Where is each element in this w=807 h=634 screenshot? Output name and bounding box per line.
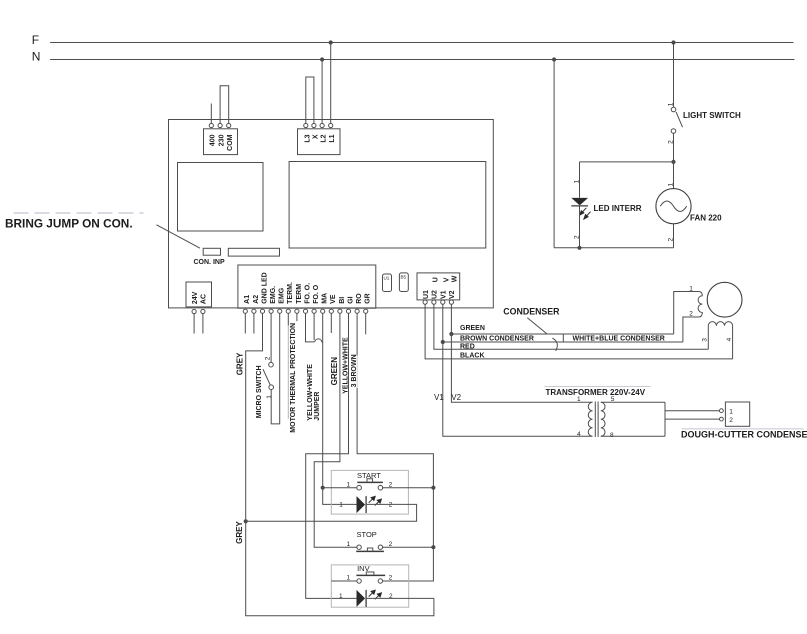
wire L1 to F — [330, 43, 332, 124]
wire stub 24V — [193, 314, 195, 334]
switch blade — [676, 112, 682, 127]
svg-text:4: 4 — [726, 337, 733, 341]
svg-text:U2: U2 — [432, 290, 439, 299]
wire to condenser pin1 — [665, 410, 720, 412]
svg-text:230: 230 — [219, 134, 226, 146]
wire F rail — [50, 42, 793, 44]
wire GREY from GND LED — [246, 314, 434, 616]
wire U2 to RED row — [434, 304, 708, 349]
label YELLOW+WHITE — [342, 345, 348, 395]
junction START.2 — [431, 486, 435, 490]
wire jumper 230-COM — [220, 86, 229, 124]
junction L2-N — [320, 57, 324, 61]
svg-text:3 BROWN: 3 BROWN — [351, 354, 358, 387]
junction N branch — [552, 57, 556, 61]
junction V2-GREEN — [449, 332, 453, 336]
wire EMG. to microswitch — [270, 314, 272, 363]
svg-text:AC: AC — [201, 294, 208, 304]
svg-text:BLACK: BLACK — [460, 353, 485, 360]
START LED arrows — [369, 496, 382, 505]
START contacts — [357, 485, 362, 490]
STOP contacts — [357, 545, 361, 549]
svg-text:EMG: EMG — [279, 287, 286, 304]
fan sine symbol — [660, 201, 686, 212]
wire stub GR — [365, 314, 367, 335]
svg-text:F: F — [32, 33, 39, 47]
svg-text:GREEN: GREEN — [460, 325, 485, 332]
svg-text:GND LED: GND LED — [261, 272, 268, 304]
svg-text:TERM: TERM — [296, 284, 303, 304]
svg-text:DOUGH-CUTTER CONDENSER: DOUGH-CUTTER CONDENSER — [681, 430, 807, 440]
wire output step — [664, 402, 666, 436]
connector 400/230/COM — [204, 123, 238, 154]
leader condenser — [527, 318, 547, 334]
wire winding leg 3 — [707, 326, 709, 350]
svg-text:2: 2 — [389, 502, 393, 509]
svg-text:MA: MA — [322, 293, 329, 304]
svg-text:L3: L3 — [304, 134, 311, 142]
svg-text:2: 2 — [729, 417, 733, 424]
micro switch contact 2 — [269, 362, 274, 367]
wire stub TERM — [296, 314, 298, 322]
condenser link vertical — [562, 334, 564, 342]
transformer T1 secondary — [601, 402, 605, 436]
svg-text:1: 1 — [667, 102, 674, 106]
micro switch contact 1 — [269, 385, 274, 390]
svg-text:B5: B5 — [401, 275, 407, 280]
wire motor terminal 2 — [683, 317, 699, 342]
svg-text:JUMPER: JUMPER — [314, 392, 321, 421]
wire fan top — [673, 162, 675, 189]
svg-text:FO. O: FO. O — [313, 284, 320, 304]
svg-text:BROWN CONDENSER: BROWN CONDENSER — [460, 336, 534, 343]
svg-text:1: 1 — [266, 395, 273, 399]
svg-text:1: 1 — [689, 286, 693, 293]
wire secondary 8 — [601, 435, 665, 437]
svg-text:GREY: GREY — [235, 521, 244, 544]
svg-text:MOTOR THERMAL PROTECTION: MOTOR THERMAL PROTECTION — [290, 323, 297, 433]
svg-text:V: V — [444, 277, 451, 282]
INV group box — [331, 565, 408, 607]
wire START.2 — [383, 487, 434, 489]
svg-text:1: 1 — [577, 396, 581, 403]
leader to CON.INP — [157, 225, 201, 248]
wire BI to STOP — [314, 314, 357, 548]
wire loop bottom — [554, 247, 673, 249]
svg-text:LIGHT SWITCH: LIGHT SWITCH — [683, 111, 741, 120]
svg-text:24V: 24V — [192, 291, 199, 304]
svg-text:WHITE+BLUE CONDENSER: WHITE+BLUE CONDENSER — [573, 336, 665, 343]
wire stub VE — [330, 314, 332, 334]
START LED triangle — [357, 496, 366, 513]
svg-text:U1: U1 — [384, 276, 390, 281]
fan M1 circle — [656, 189, 691, 224]
junction L1-F — [329, 40, 333, 44]
START LED bar — [365, 496, 367, 513]
svg-text:L1: L1 — [329, 134, 336, 142]
wire stub A1 — [244, 314, 246, 334]
condenser arc symbol — [552, 338, 557, 351]
svg-text:GR: GR — [365, 293, 372, 304]
control board outline — [169, 120, 494, 308]
START group box — [331, 470, 408, 514]
transformer T1 primary — [588, 402, 592, 436]
micro switch blade — [263, 369, 270, 385]
svg-text:1: 1 — [339, 593, 343, 600]
svg-text:2: 2 — [573, 235, 580, 239]
svg-text:400: 400 — [210, 134, 217, 146]
junction F-switch — [671, 40, 675, 44]
svg-text:CONDENSER: CONDENSER — [503, 306, 560, 316]
strip pin labels — [244, 272, 371, 304]
svg-text:2: 2 — [265, 356, 272, 360]
fuse box 2 — [399, 273, 408, 292]
svg-text:TRANSFORMER 220V-24V: TRANSFORMER 220V-24V — [546, 388, 646, 397]
wire jumper L3-X — [306, 77, 314, 124]
svg-text:U1: U1 — [423, 290, 430, 299]
label 3 BROWN — [351, 356, 358, 389]
junction STOP.2 — [431, 545, 435, 549]
wire START LED.2 return to GREY — [246, 504, 417, 521]
svg-text:8: 8 — [610, 432, 614, 439]
svg-text:1: 1 — [339, 502, 343, 509]
wire GREEN row — [451, 333, 673, 335]
wire LED anode — [579, 162, 581, 198]
module left inner — [178, 163, 264, 232]
svg-text:FO. O.: FO. O. — [304, 283, 311, 304]
svg-text:1: 1 — [573, 180, 580, 184]
svg-text:V2: V2 — [451, 393, 461, 402]
wire switch to node — [673, 133, 675, 162]
svg-text:1: 1 — [667, 183, 674, 187]
svg-text:U: U — [433, 277, 440, 282]
wire stub FO.O — [313, 314, 315, 341]
svg-text:W: W — [452, 275, 459, 282]
wire loop top — [580, 161, 674, 163]
wire to condenser pin2 — [665, 418, 720, 420]
svg-text:CON. INP: CON. INP — [194, 259, 225, 266]
switch contact 2 — [671, 129, 676, 134]
wire F to switch — [673, 43, 675, 107]
transformer core — [594, 402, 596, 438]
svg-text:V1: V1 — [441, 290, 448, 299]
wire U1 to BLACK row — [425, 304, 732, 359]
wire V1 down to transformer — [443, 304, 593, 436]
junction switch-loop — [671, 160, 675, 164]
svg-text:GI: GI — [347, 296, 354, 303]
wire TERM. down — [287, 314, 289, 419]
svg-text:V2: V2 — [449, 290, 456, 299]
junction LED bottom — [577, 246, 581, 250]
svg-text:1: 1 — [347, 541, 351, 548]
svg-text:GREEN: GREEN — [330, 357, 339, 386]
LED D1 arrows — [580, 208, 591, 219]
wire GI to INV led — [306, 314, 357, 599]
INV contacts — [357, 579, 361, 583]
svg-text:LED INTERR: LED INTERR — [594, 204, 642, 213]
connector U1 U2 V1 V2 — [417, 273, 460, 304]
wire N branch down — [553, 60, 555, 248]
wire N rail — [50, 59, 794, 61]
STOP plunger notch — [367, 548, 372, 551]
svg-text:1: 1 — [729, 409, 733, 416]
svg-text:2: 2 — [689, 311, 693, 318]
dough condenser pins — [720, 409, 724, 413]
wire INV LED.2 — [366, 597, 434, 599]
ghost line — [682, 428, 804, 430]
svg-text:L2: L2 — [321, 134, 328, 142]
INV LED arrows — [369, 590, 382, 599]
strip pin circles — [243, 309, 368, 313]
svg-text:X: X — [312, 134, 319, 139]
dough-cutter condenser box — [725, 402, 749, 426]
START plunger — [367, 479, 373, 482]
wire fan bottom — [673, 224, 675, 248]
wire V2 down to transformer — [451, 304, 592, 402]
wire BROWN row — [443, 341, 683, 343]
label MOTOR THERMAL PROTECTION — [287, 325, 297, 433]
svg-text:RED: RED — [460, 344, 475, 351]
wire secondary 5 — [601, 401, 665, 403]
svg-text:VE: VE — [330, 294, 337, 304]
wire winding leg 4 — [732, 326, 734, 359]
connector 24V AC — [186, 282, 212, 314]
INV LED bar — [365, 590, 367, 607]
motor winding coil vertical — [698, 292, 702, 318]
LED D1 cathode bar — [571, 205, 588, 207]
svg-text:FAN 220: FAN 220 — [690, 213, 722, 222]
wire L2 to N — [321, 60, 323, 124]
wire MA to START — [323, 314, 357, 505]
svg-text:BRING JUMP ON CON.: BRING JUMP ON CON. — [5, 217, 133, 231]
svg-text:A1: A1 — [244, 295, 251, 304]
motor M2 circle — [707, 282, 742, 317]
INV plunger — [366, 572, 374, 575]
wire motor terminal 1 — [674, 292, 699, 335]
label BRING JUMP ON CON. ghost — [14, 212, 144, 214]
svg-text:BI: BI — [339, 297, 346, 304]
svg-text:2: 2 — [389, 575, 393, 582]
svg-text:TERM.: TERM. — [287, 282, 294, 304]
LED D1 triangle — [571, 198, 588, 206]
junction MA-START.1 — [321, 486, 325, 490]
connector L3/X/L2/L1 — [298, 123, 341, 154]
START bridge — [357, 481, 383, 483]
wire RO to buttons right — [357, 314, 433, 582]
connector CON.INP small — [203, 248, 220, 255]
svg-text:COM: COM — [227, 134, 234, 151]
wire stub A2 — [253, 314, 255, 334]
svg-text:3: 3 — [701, 338, 708, 342]
start winding coil horizontal — [708, 322, 732, 326]
INV bridge — [356, 574, 385, 576]
connector CON.INP long — [228, 248, 279, 256]
junction GREY return — [244, 519, 248, 523]
connector strip A1..GR — [238, 265, 376, 308]
ghost line — [545, 386, 651, 388]
label YELLOW+WHITE JUMPER — [307, 365, 314, 422]
fuse box 1 — [383, 274, 392, 292]
svg-text:2: 2 — [667, 238, 674, 242]
svg-text:EMG.: EMG. — [270, 286, 277, 304]
svg-text:4: 4 — [577, 431, 581, 438]
svg-text:N: N — [32, 50, 41, 64]
INV LED triangle — [357, 590, 366, 607]
switch contact 1 — [671, 107, 676, 112]
wire START.1 — [323, 487, 357, 489]
wire INV.1 — [331, 580, 357, 582]
wire jumper FO.O. — [306, 314, 323, 342]
module right inner — [289, 162, 486, 249]
svg-text:RO: RO — [356, 293, 363, 304]
svg-text:V1: V1 — [434, 393, 444, 402]
svg-text:MICRO SWITCH: MICRO SWITCH — [256, 365, 263, 418]
wire microswitch return to EMG — [271, 314, 280, 424]
svg-text:STOP: STOP — [357, 530, 377, 539]
svg-text:YELLOW+WHITE: YELLOW+WHITE — [343, 337, 350, 394]
wire stub pin 400 — [210, 104, 212, 124]
junction V1-BROWN — [441, 340, 445, 344]
svg-text:A2: A2 — [253, 295, 260, 304]
wire stub AC — [202, 314, 204, 334]
wire LED cathode — [579, 206, 581, 248]
svg-text:GREY: GREY — [236, 352, 245, 375]
STOP bridge below — [356, 550, 384, 552]
wire STOP.2 — [383, 546, 434, 548]
